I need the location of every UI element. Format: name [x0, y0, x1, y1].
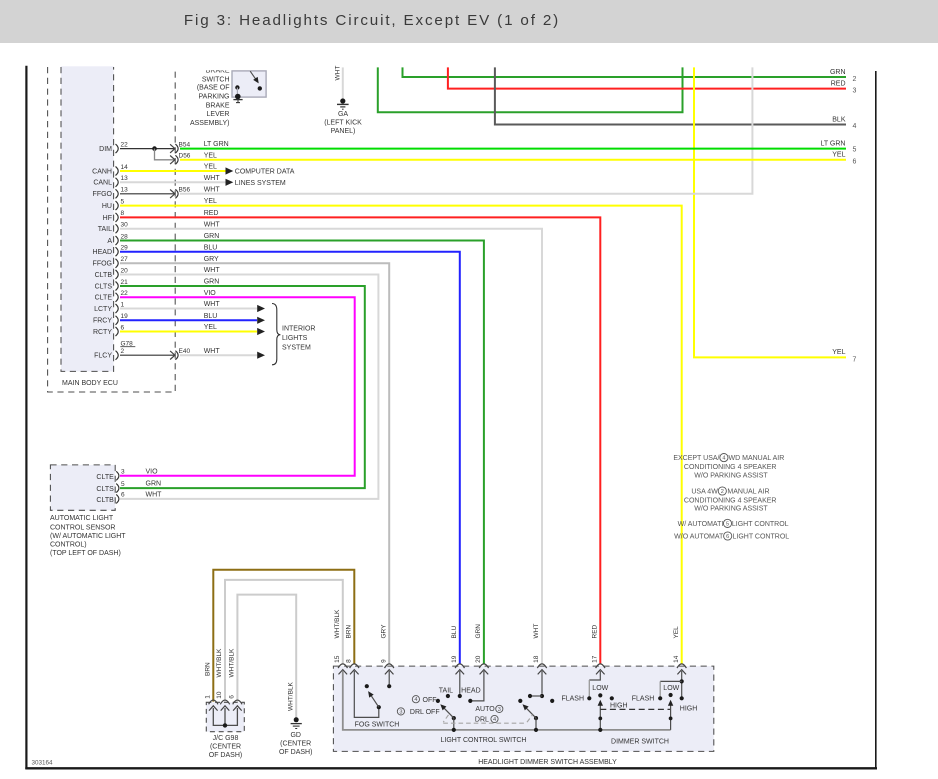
svg-text:W/O AUTOMAT: W/O AUTOMAT	[674, 534, 724, 541]
wire HU YEL to dimmer pin 14	[120, 198, 682, 663]
svg-text:G78: G78	[121, 340, 134, 347]
wire RCTY YEL to interior lights	[120, 324, 265, 335]
label computer data lines system	[235, 169, 295, 187]
svg-text:WHT: WHT	[146, 492, 163, 499]
svg-text:FOG SWITCH: FOG SWITCH	[355, 722, 400, 729]
headlight dimmer switch assembly box	[333, 666, 713, 766]
wire HF RED to dimmer pin 17	[120, 210, 600, 664]
svg-text:LT GRN: LT GRN	[820, 140, 845, 147]
svg-text:8: 8	[121, 210, 125, 217]
svg-text:AUTOMATIC LIGHT: AUTOMATIC LIGHT	[50, 515, 114, 522]
assembly pin 19 (BLU)	[451, 626, 465, 675]
wire B56 WHT label	[204, 186, 221, 193]
ECU pin HF 8	[103, 210, 125, 222]
svg-text:LT GRN: LT GRN	[204, 141, 229, 148]
wire B54 LT GRN to terminal 5	[180, 140, 857, 153]
dimmer switch mechanical link	[600, 708, 670, 710]
svg-text:RCTY: RCTY	[93, 329, 112, 336]
svg-text:1: 1	[205, 695, 212, 699]
svg-text:DRL: DRL	[475, 716, 489, 723]
svg-text:B54: B54	[179, 141, 191, 148]
svg-text:LIGHT CONTROL: LIGHT CONTROL	[732, 521, 789, 528]
assembly pin 14 (YEL)	[673, 626, 687, 675]
svg-text:SWITCH: SWITCH	[202, 76, 230, 83]
svg-text:BRAKE: BRAKE	[206, 102, 230, 109]
fog switch fixed contact	[365, 684, 369, 688]
wire WHT from FFGO B56 off-page	[180, 67, 752, 193]
svg-text:CANL: CANL	[93, 180, 112, 187]
light control switch bank2 off contact	[518, 699, 522, 703]
svg-text:22: 22	[121, 141, 129, 148]
svg-text:CLTE: CLTE	[95, 295, 113, 302]
svg-text:COMPUTER DATA: COMPUTER DATA	[235, 169, 295, 176]
wire RED to terminal 3	[448, 67, 857, 94]
svg-text:WHT: WHT	[204, 301, 221, 308]
svg-text:LIGHT CONTROL SWITCH: LIGHT CONTROL SWITCH	[441, 737, 527, 744]
svg-text:GRY: GRY	[380, 624, 387, 639]
assembly pin 15 (WHT/BLK)	[334, 609, 348, 674]
ECU pin FFOG 27	[93, 256, 129, 268]
wire YEL to terminal 7	[694, 67, 857, 363]
dimmer switch bank A wiper	[598, 700, 603, 732]
svg-text:GA: GA	[338, 111, 348, 118]
wire CLTB WHT to sensor pin 6	[120, 267, 378, 499]
note usa 4wd	[684, 487, 777, 513]
svg-text:29: 29	[121, 245, 129, 252]
svg-text:GD: GD	[290, 732, 301, 739]
svg-text:CONDITIONING 4 SPEAKER: CONDITIONING 4 SPEAKER	[684, 464, 777, 471]
svg-text:FLCY: FLCY	[94, 353, 112, 360]
fog switch wiper	[366, 690, 381, 710]
svg-text:(W/ AUTOMATIC LIGHT: (W/ AUTOMATIC LIGHT	[50, 533, 126, 540]
svg-text:HEADLIGHT DIMMER SWITCH ASSEMB: HEADLIGHT DIMMER SWITCH ASSEMBLY	[478, 759, 617, 766]
svg-text:BRN: BRN	[204, 662, 211, 676]
svg-text:DRL OFF: DRL OFF	[410, 709, 440, 716]
svg-text:HF: HF	[103, 215, 112, 222]
svg-text:BLU: BLU	[204, 244, 218, 251]
wire CLTE VIO to sensor pin 3	[120, 290, 355, 476]
svg-text:YEL: YEL	[204, 164, 217, 171]
wire FFOG GRY to pin 9	[120, 256, 389, 664]
svg-text:OF DASH): OF DASH)	[209, 752, 242, 759]
wire DIM pin 22 to connectors B54/D56, junction	[120, 146, 175, 160]
sensor pin CLTB 6	[96, 492, 162, 504]
svg-text:4: 4	[414, 697, 417, 703]
ECU pin FFGO 13	[93, 187, 129, 199]
wire BLK to terminal 4	[495, 67, 857, 130]
svg-text:WHT: WHT	[204, 348, 221, 355]
svg-text:TAIL: TAIL	[439, 687, 453, 694]
J/C G98 pin 1 connector	[205, 695, 219, 711]
junction connector J/C G98 box	[206, 702, 244, 759]
ECU pin RCTY 6	[93, 324, 125, 336]
light control switch bank2 wiper	[521, 702, 539, 732]
brace interior lights system	[272, 304, 315, 365]
svg-text:LIGHT CONTROL: LIGHT CONTROL	[733, 534, 790, 541]
svg-text:3: 3	[853, 88, 857, 95]
automatic light control sensor box	[50, 465, 126, 557]
svg-text:FLASH: FLASH	[632, 696, 655, 703]
svg-text:CANH: CANH	[92, 168, 112, 175]
svg-text:CLTS: CLTS	[96, 486, 114, 493]
wire FLCY pin to connector E40	[120, 354, 175, 356]
svg-text:LINES SYSTEM: LINES SYSTEM	[235, 180, 286, 187]
light control switch mechanical link	[443, 715, 532, 723]
wire WHT/BLK J/C G98 pin 6 to ground GD	[228, 595, 296, 718]
svg-text:GRN: GRN	[146, 481, 162, 488]
net G78 label	[120, 340, 135, 347]
svg-text:3: 3	[498, 707, 501, 713]
dimmer switch bank B feed from pin 14	[658, 671, 684, 700]
assembly pin 8 (BRN)	[345, 624, 359, 674]
svg-text:HIGH: HIGH	[680, 705, 698, 712]
svg-text:YEL: YEL	[832, 349, 845, 356]
svg-text:30: 30	[121, 222, 129, 229]
brake switch S1 (base of parking brake lever assembly) box	[190, 63, 266, 127]
light control switch bank1 wiper	[438, 702, 456, 732]
svg-text:W/O PARKING ASSIST: W/O PARKING ASSIST	[694, 506, 768, 513]
svg-text:(CENTER: (CENTER	[280, 741, 311, 748]
connector B54	[170, 141, 190, 153]
svg-text:WHT: WHT	[204, 186, 221, 193]
svg-text:(CENTER: (CENTER	[210, 743, 241, 750]
label fog switch	[355, 722, 400, 729]
svg-text:4: 4	[853, 123, 857, 130]
svg-text:CLTB: CLTB	[96, 497, 114, 504]
wire FFGO pin to connector B56	[120, 193, 175, 195]
ECU pin FRCY 19	[93, 313, 128, 325]
svg-text:PARKING: PARKING	[199, 93, 230, 100]
svg-text:YEL: YEL	[673, 626, 680, 639]
svg-text:2: 2	[121, 348, 125, 355]
ECU pin FLCY 2	[94, 348, 124, 360]
dimmer switch bank B wiper	[668, 700, 673, 730]
svg-text:VIO: VIO	[146, 468, 159, 475]
svg-text:4: 4	[722, 456, 725, 462]
ECU pin CLTB 20	[95, 267, 128, 279]
wire FRCY BLU to interior lights	[120, 313, 265, 324]
ECU pin TAIL 30	[98, 222, 128, 234]
svg-text:GRN: GRN	[830, 69, 846, 76]
connector E40	[170, 348, 190, 360]
svg-text:FFOG: FFOG	[93, 261, 112, 268]
svg-text:8: 8	[345, 659, 352, 663]
svg-text:RED: RED	[204, 210, 219, 217]
svg-text:W/O PARKING ASSIST: W/O PARKING ASSIST	[694, 473, 768, 480]
svg-text:18: 18	[533, 655, 540, 663]
connector D56	[170, 153, 191, 165]
assembly pin 18 (WHT)	[533, 624, 547, 675]
wire HEAD BLU to pin 19	[120, 244, 460, 663]
svg-text:W/ AUTOMATI: W/ AUTOMATI	[678, 521, 724, 528]
svg-text:AUTO: AUTO	[475, 706, 495, 713]
svg-text:MANUAL AIR: MANUAL AIR	[727, 489, 769, 496]
labels light control switch positions bank1	[397, 687, 503, 723]
svg-text:YEL: YEL	[832, 152, 845, 159]
svg-text:FLASH: FLASH	[561, 696, 584, 703]
svg-text:9: 9	[380, 659, 387, 663]
svg-text:RED: RED	[831, 80, 846, 87]
svg-text:WHT: WHT	[334, 66, 341, 81]
svg-text:DIM: DIM	[99, 146, 112, 153]
svg-text:HEAD: HEAD	[93, 249, 112, 256]
svg-text:WHT: WHT	[204, 267, 221, 274]
svg-text:YEL: YEL	[204, 152, 217, 159]
note w/o automatic light control	[674, 532, 789, 541]
svg-text:6: 6	[726, 534, 729, 540]
svg-text:21: 21	[121, 279, 129, 286]
svg-text:J/C G98: J/C G98	[213, 735, 239, 742]
ground GD (center of dash)	[279, 717, 312, 756]
light control switch bank2 head contact from pin 18	[528, 671, 544, 698]
diagram number label	[32, 760, 54, 767]
label dimmer switch	[611, 738, 669, 745]
wire BRN J/C G98 pin 1 to dimmer pin 8	[204, 570, 354, 702]
svg-text:RED: RED	[591, 624, 598, 638]
svg-text:GRN: GRN	[204, 279, 220, 286]
svg-text:19: 19	[451, 655, 458, 663]
ECU pin HEAD 29	[93, 245, 129, 257]
svg-text:WHT/BLK: WHT/BLK	[216, 648, 223, 678]
light control switch bank2 auto contact	[550, 699, 554, 703]
ECU pin LCTY 1	[94, 301, 124, 313]
svg-text:13: 13	[121, 175, 129, 182]
ECU pin CLTE 22	[95, 290, 128, 302]
wire GRN loop top	[378, 67, 683, 112]
note except usa/4wd	[673, 454, 784, 480]
svg-text:10: 10	[216, 691, 223, 699]
assembly pin 20 (GRN)	[475, 624, 489, 675]
svg-text:FRCY: FRCY	[93, 318, 112, 325]
fog switch pin 9 contact	[387, 671, 391, 688]
svg-text:20: 20	[475, 655, 482, 663]
svg-text:CLTS: CLTS	[95, 283, 113, 290]
svg-text:(BASE OF: (BASE OF	[197, 85, 230, 92]
brake switch fixed contact and ground lead	[235, 85, 241, 99]
svg-text:303164: 303164	[32, 760, 54, 767]
svg-text:5: 5	[853, 147, 857, 154]
svg-text:DIMMER SWITCH: DIMMER SWITCH	[611, 738, 669, 745]
svg-text:7: 7	[853, 357, 857, 364]
svg-text:LOW: LOW	[592, 685, 608, 692]
svg-text:WHT: WHT	[204, 175, 221, 182]
ECU pin CANH 14	[92, 164, 128, 176]
svg-text:GRN: GRN	[204, 233, 220, 240]
svg-text:5: 5	[121, 198, 125, 205]
dimmer switch bank A feed from pin 17 to flash contact	[587, 671, 600, 700]
svg-text:19: 19	[121, 313, 129, 320]
svg-text:YEL: YEL	[204, 198, 217, 205]
svg-text:OF DASH): OF DASH)	[279, 749, 312, 756]
svg-text:14: 14	[121, 164, 129, 171]
wire WHT/BLK J/C G98 pin 10 to dimmer pin 15	[216, 580, 343, 702]
svg-text:27: 27	[121, 256, 129, 263]
svg-text:HU: HU	[102, 203, 112, 210]
wire E40 WHT to interior lights	[180, 348, 265, 359]
svg-text:5: 5	[121, 481, 125, 488]
svg-text:WHT/BLK: WHT/BLK	[334, 609, 341, 639]
svg-text:6: 6	[229, 695, 236, 699]
svg-text:WHT/BLK: WHT/BLK	[228, 648, 235, 678]
dimmer switch bank B low contact	[669, 693, 673, 697]
svg-text:VIO: VIO	[204, 290, 217, 297]
svg-text:GRY: GRY	[204, 256, 219, 263]
svg-text:WHT/BLK: WHT/BLK	[287, 681, 294, 711]
labels dimmer switch positions	[561, 685, 697, 713]
light control switch bank1 tail contact	[446, 694, 450, 698]
light control switch bank1 off contact	[436, 699, 440, 703]
svg-text:15: 15	[334, 655, 341, 663]
wire A GRN to pin 20	[120, 233, 484, 663]
svg-text:(TOP LEFT OF DASH): (TOP LEFT OF DASH)	[50, 550, 121, 557]
svg-text:GRN: GRN	[475, 624, 482, 639]
svg-text:LIGHTS: LIGHTS	[282, 335, 308, 342]
wire CANL WHT to computer data lines	[120, 175, 233, 186]
title bar	[0, 0, 938, 43]
dimmer switch bank B high contact	[680, 696, 684, 700]
wire GRN to terminal 2	[403, 67, 857, 83]
svg-text:SYSTEM: SYSTEM	[282, 344, 311, 351]
svg-text:22: 22	[121, 290, 129, 297]
assembly pin 17 (RED)	[591, 624, 605, 674]
svg-text:D56: D56	[179, 153, 191, 160]
svg-text:28: 28	[121, 233, 129, 240]
ground GA (left kick panel)	[324, 98, 362, 135]
svg-text:6: 6	[121, 324, 125, 331]
svg-text:13: 13	[121, 187, 129, 194]
svg-text:CONDITIONING 4 SPEAKER: CONDITIONING 4 SPEAKER	[684, 497, 777, 504]
fog switch ground rail from pin 15	[343, 671, 671, 730]
light control switch bank1 head contact from pin 19	[458, 671, 462, 698]
wire TAIL WHT to pin 18	[120, 221, 542, 663]
svg-text:WHT: WHT	[204, 221, 221, 228]
svg-text:HIGH: HIGH	[610, 703, 628, 710]
svg-text:CLTB: CLTB	[95, 272, 113, 279]
svg-text:5: 5	[726, 521, 729, 527]
J/C G98 pin 10 connector	[216, 691, 230, 711]
svg-text:WHT: WHT	[533, 624, 540, 639]
svg-text:CLTE: CLTE	[96, 474, 114, 481]
svg-text:CONTROL): CONTROL)	[50, 542, 87, 549]
svg-text:6: 6	[853, 158, 857, 165]
svg-text:LOW: LOW	[663, 685, 679, 692]
svg-text:INTERIOR: INTERIOR	[282, 326, 315, 333]
svg-text:BLU: BLU	[204, 313, 218, 320]
svg-text:BLK: BLK	[832, 116, 846, 123]
svg-text:ASSEMBLY): ASSEMBLY)	[190, 120, 230, 127]
svg-text:17: 17	[591, 655, 598, 663]
wire CANH YEL to computer data lines	[120, 164, 233, 175]
brake switch contact wiper	[250, 71, 262, 90]
svg-text:WD MANUAL AIR: WD MANUAL AIR	[729, 455, 785, 462]
connector B56	[170, 187, 190, 199]
svg-text:14: 14	[673, 655, 680, 663]
J/C G98 internal bus	[213, 708, 237, 728]
fog switch feed from pin 8	[354, 671, 379, 717]
svg-text:MAIN BODY ECU: MAIN BODY ECU	[62, 380, 118, 387]
sensor pin CLTE 3	[96, 468, 158, 480]
ECU U1 MAIN BODY ECU box	[48, 66, 176, 392]
svg-text:LEVER: LEVER	[207, 111, 230, 118]
svg-text:BLU: BLU	[451, 626, 458, 639]
svg-text:E40: E40	[179, 348, 191, 355]
ECU pin CANL 13	[93, 175, 128, 187]
ECU pin HU 5	[102, 198, 125, 210]
svg-text:FFGO: FFGO	[93, 191, 113, 198]
sensor pin CLTS 5	[96, 481, 161, 493]
wire LCTY WHT to interior lights	[120, 301, 265, 312]
svg-text:6: 6	[121, 492, 125, 499]
ECU pin DIM 22	[99, 141, 128, 153]
svg-text:B56: B56	[179, 187, 191, 194]
svg-text:CONTROL SENSOR: CONTROL SENSOR	[50, 524, 115, 531]
svg-text:3: 3	[399, 709, 402, 715]
svg-text:Fig 3: Headlights Circuit, Exc: Fig 3: Headlights Circuit, Except EV (1 …	[184, 12, 560, 29]
svg-text:HEAD: HEAD	[461, 687, 480, 694]
label light control switch	[441, 737, 527, 744]
svg-text:(LEFT KICK: (LEFT KICK	[324, 120, 362, 127]
svg-text:PANEL): PANEL)	[331, 128, 356, 135]
svg-text:EXCEPT USA/: EXCEPT USA/	[673, 455, 719, 462]
wire D56 YEL to terminal 6	[180, 152, 857, 166]
light control switch bank1 auto contact from pin 20	[468, 671, 484, 703]
J/C G98 pin 6 connector	[229, 695, 243, 711]
svg-text:3: 3	[121, 469, 125, 476]
svg-text:TAIL: TAIL	[98, 226, 112, 233]
svg-text:USA 4W: USA 4W	[691, 489, 718, 496]
ECU pin A 28	[107, 233, 128, 245]
wire WHT to GA ground	[334, 66, 343, 100]
dimmer switch bank A high contact	[610, 696, 614, 700]
note w/ automatic light control	[678, 519, 789, 528]
svg-text:2: 2	[721, 489, 724, 495]
svg-text:20: 20	[121, 267, 129, 274]
svg-text:BRN: BRN	[345, 624, 352, 638]
svg-text:2: 2	[853, 76, 857, 83]
assembly pin 9 (GRY)	[380, 624, 394, 675]
dimmer switch bank A low contact	[598, 693, 602, 697]
ground below brake switch	[233, 100, 242, 103]
svg-text:1: 1	[121, 301, 125, 308]
svg-text:4: 4	[493, 717, 496, 723]
svg-text:LCTY: LCTY	[94, 306, 112, 313]
svg-text:OFF: OFF	[423, 697, 437, 704]
ECU pin CLTS 21	[95, 279, 128, 291]
svg-text:A: A	[107, 238, 112, 245]
wire CLTS GRN to sensor pin 5	[120, 279, 365, 489]
svg-text:YEL: YEL	[204, 324, 217, 331]
